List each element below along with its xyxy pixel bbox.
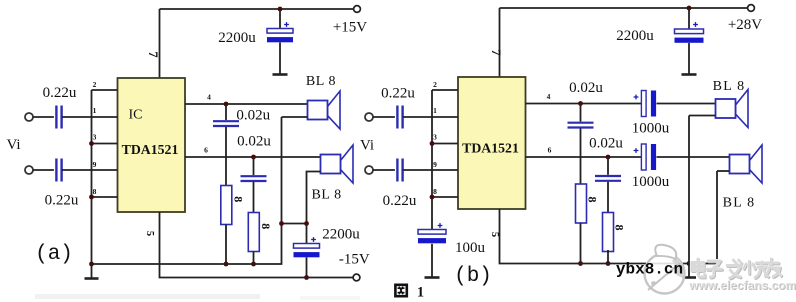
svg-text:2200u: 2200u (616, 28, 654, 44)
svg-text:1: 1 (417, 285, 424, 301)
BL 8 label top (a) (306, 74, 336, 89)
resistor R1 (a) (221, 186, 232, 225)
TDA1521 part label (b) (462, 141, 519, 156)
zobel 1 wire upper (b) (580, 104, 582, 122)
wire ground cross link (a) (282, 223, 307, 225)
zobel 1 wire middle (a) (225, 127, 227, 186)
op-amp IC U2 TDA1521 (b) (458, 77, 526, 209)
resistor R2 (a) (248, 213, 259, 252)
wire speaker2 return (a) (307, 172, 321, 224)
BL 8 label bottom (a) (311, 188, 341, 203)
svg-text:(b): (b) (454, 265, 492, 288)
svg-text:0.22u: 0.22u (43, 85, 77, 101)
zobel 2 wire middle (a) (253, 182, 255, 213)
node zobel 1 to rail (a) (224, 262, 229, 267)
node cross link left (a) (279, 221, 284, 226)
node pin 4 zobel tap (a) (224, 102, 229, 107)
C5 value label 0.22u (b) (381, 86, 415, 102)
svg-text:8: 8 (586, 197, 600, 203)
speaker BL8 bottom (b) (730, 145, 763, 183)
node bus to ground rail (a) (89, 262, 94, 267)
BL 8 label top (b) (713, 79, 746, 94)
svg-text:1: 1 (93, 106, 97, 115)
pin 9 label (a) (93, 160, 97, 169)
node zobel 1 to rail (b) (578, 261, 583, 266)
zobel 2 wire lower (a) (253, 252, 255, 265)
circuit (b) +28V top rail wire (500, 7, 752, 9)
pin 3 stub (b) (432, 143, 458, 145)
input terminal Vi bottom (b) (365, 166, 373, 174)
svg-text:+15V: +15V (333, 20, 367, 36)
svg-text:9: 9 (93, 160, 97, 169)
op-amp IC U1 TDA1521 (a) (118, 78, 186, 212)
svg-text:8: 8 (433, 187, 437, 196)
capacitor C2 0.22u (a) (56, 159, 61, 182)
node zobel 2 to rail (b) (606, 261, 611, 266)
wire speaker2 return (b) (717, 170, 730, 172)
watermark elecfans logo (645, 245, 685, 294)
watermark elecfans CJK text (691, 259, 782, 279)
svg-text:1000u: 1000u (632, 174, 670, 190)
node pin 8 on bus (b) (430, 195, 435, 200)
ground symbol main (a) (85, 264, 99, 279)
svg-text:3: 3 (93, 133, 97, 142)
node top rail junction (b) (687, 6, 692, 11)
svg-text:2: 2 (93, 80, 97, 89)
pin 8 label (b) (433, 187, 437, 196)
BL 8 label bottom (b) (723, 196, 756, 211)
+28V terminal (748, 5, 755, 12)
watermark ybx8.cn text (616, 261, 683, 279)
circuit label (b) (454, 265, 492, 288)
R3 value label (b) (586, 197, 600, 203)
node ground rail (b) (687, 261, 692, 266)
svg-text:TDA1521: TDA1521 (462, 141, 519, 156)
ground bus vertical (b) (431, 90, 433, 230)
C2 value label 0.22u (a) (45, 193, 79, 209)
svg-text:0.22u: 0.22u (381, 86, 415, 102)
pin 4 label (a) (207, 93, 211, 102)
pin 9 label (b) (433, 160, 437, 169)
R4 value label (b) (613, 225, 627, 231)
C4 value label 0.02u (a) (237, 134, 271, 150)
zobel 1 wire lower (b) (580, 223, 582, 264)
node 2200u on -15V rail (a) (304, 275, 309, 280)
-15V terminal (a) (353, 274, 360, 281)
C6 value label 0.22u (b) (383, 193, 417, 209)
capacitor 1000u out1 value label (632, 121, 670, 137)
pin 8 label (a) (93, 187, 97, 196)
pin 6 output wire (a) (185, 156, 321, 158)
C8 value label 0.02u (b) (589, 136, 623, 152)
resistor R4 (b) (603, 213, 614, 252)
ground bus vertical (a) (91, 90, 93, 264)
svg-text:7: 7 (489, 49, 503, 55)
svg-text:0.02u: 0.02u (589, 136, 623, 152)
zobel 2 wire lower (b) (607, 250, 609, 264)
speaker BL8 bottom (a) (321, 145, 354, 183)
capacitor 100u value label (455, 240, 486, 256)
capacitor 2200u (a) polarity + (284, 22, 289, 27)
wire C1 to pin 1 (a) (62, 116, 118, 118)
C3 value label 0.02u (a) (236, 108, 270, 124)
capacitor 100u (b) (418, 230, 446, 244)
svg-text:8: 8 (231, 196, 245, 202)
svg-text:8: 8 (93, 187, 97, 196)
pin 1 label (b) (433, 106, 437, 115)
pin 4 output wire (b) (526, 103, 642, 105)
C7 value label 0.02u (b) (569, 80, 603, 96)
ground below 100u (b) (425, 263, 440, 278)
input terminal Vi bottom (a) (25, 166, 33, 174)
TDA1521 part label (a) (122, 142, 179, 157)
pin 7 label circuit (a) (146, 51, 160, 57)
capacitor 0.02u C7 (b) (568, 123, 594, 128)
speaker BL8 top (b) (716, 90, 749, 128)
Vi label (a) (6, 137, 20, 153)
capacitor 2200u supply (b) (675, 29, 704, 43)
pin 6 output wire (b) (526, 156, 642, 158)
bottom caption smudge (35, 294, 360, 300)
svg-text:IC: IC (129, 108, 143, 123)
capacitor 100u polarity + (438, 223, 443, 228)
wire 1000u out2 to speaker (b) (657, 156, 730, 158)
pin 2 label (a) (93, 80, 97, 89)
input terminal Vi top (b) (365, 113, 373, 121)
node pin 3 on bus (b) (430, 141, 435, 146)
svg-text:0.22u: 0.22u (383, 193, 417, 209)
pin 5 wire (b) (500, 209, 718, 264)
ground symbol rail (b) (682, 264, 696, 278)
capacitor 2200u neg (a) value label (322, 226, 360, 242)
C1 value label 0.22u (a) (43, 85, 77, 101)
pin 8 stub (a) (92, 196, 118, 198)
svg-text:-15V: -15V (339, 251, 370, 267)
capacitor 2200u negative rail (a) (294, 244, 320, 258)
pin 2 label (b) (433, 80, 437, 89)
capacitor 0.02u C4 (a) (241, 176, 267, 181)
svg-text:BL 8: BL 8 (723, 196, 756, 211)
node zobel 2 to rail (a) (251, 262, 256, 267)
pin 7 label circuit (b) (489, 49, 503, 55)
wire input bottom to C2 (a) (33, 169, 54, 171)
svg-text:2200u: 2200u (218, 30, 256, 46)
watermark www.elecfans.com text (688, 278, 796, 293)
capacitor C5 0.22u (b) (397, 106, 402, 129)
svg-text:Vi: Vi (6, 137, 20, 153)
svg-text:2: 2 (433, 80, 437, 89)
wire C6 to pin 9 (b) (403, 169, 458, 171)
IC designator label (a) (129, 108, 143, 123)
wire 1000u out1 to speaker (b) (657, 103, 716, 105)
zobel 2 wire middle (b) (607, 182, 609, 213)
R1 value label (a) (231, 196, 245, 202)
svg-text:0.02u: 0.02u (569, 80, 603, 96)
pin 6 label (a) (204, 146, 208, 155)
ground rail A (a) (92, 117, 282, 264)
wire input top to C1 (a) (33, 116, 54, 118)
svg-text:2200u: 2200u (322, 226, 360, 242)
figure label 图 1 (395, 285, 424, 301)
pin 4 label (b) (547, 92, 551, 101)
-15V label (339, 251, 370, 267)
Vi label (b) (360, 138, 374, 154)
pin 8 stub (b) (432, 196, 458, 198)
svg-text:7: 7 (146, 51, 160, 57)
capacitor 2200u positive rail (a) wire (279, 9, 281, 29)
svg-text:6: 6 (548, 146, 552, 155)
ground below 2200u (b) (682, 43, 697, 75)
svg-text:5: 5 (489, 232, 500, 237)
wire input bottom to C6 (b) (373, 169, 395, 171)
wire speaker1 return (a) (282, 116, 308, 118)
pin 1 label (a) (93, 106, 97, 115)
pin 3 stub (a) (92, 143, 118, 145)
node: top rail junction (a) (278, 7, 283, 12)
node pin 6 zobel tap (a) (251, 155, 256, 160)
svg-text:Vi: Vi (360, 138, 374, 154)
circuit label (a) (35, 243, 73, 266)
capacitor 0.02u C8 (b) (595, 176, 621, 181)
wire speaker1 return vertical (b) (688, 116, 690, 264)
capacitor 2200u positive rail (a) (267, 29, 293, 43)
resistor R3 (b) (576, 184, 587, 223)
wire C2 to pin 9 (a) (62, 169, 118, 171)
svg-text:8: 8 (613, 225, 627, 231)
node pin 3 on bus (a) (89, 141, 94, 146)
pin 2 stub (b) (432, 89, 458, 91)
zobel 1 wire lower (a) (225, 225, 227, 265)
svg-text:4: 4 (207, 93, 211, 102)
capacitor 1000u output 1 (b) (641, 91, 656, 117)
svg-text:+28V: +28V (728, 17, 762, 33)
node pin 6 zobel tap (b) (606, 155, 611, 160)
svg-text:0.02u: 0.02u (236, 108, 270, 124)
+15V terminal circuit (a) (354, 6, 361, 13)
svg-text:5: 5 (144, 231, 155, 236)
pin 7 wire circuit (b) (499, 8, 501, 77)
svg-text:(a): (a) (35, 243, 73, 266)
capacitor 1000u out2 polarity + (634, 148, 639, 153)
+28V label (728, 17, 762, 33)
pin 5 label (b) (489, 232, 500, 237)
node pin 4 zobel tap (b) (578, 101, 583, 106)
+15V label (333, 20, 367, 36)
pin 4 output wire (a) (185, 103, 308, 105)
speaker BL8 top (a) (308, 91, 341, 129)
svg-text:ybx8.cn: ybx8.cn (616, 261, 683, 279)
svg-text:0.22u: 0.22u (45, 193, 79, 209)
capacitor C1 0.22u (a) (56, 106, 61, 129)
svg-text:TDA1521: TDA1521 (122, 142, 179, 157)
svg-text:1000u: 1000u (632, 121, 670, 137)
zobel 1 wire upper (a) (225, 104, 227, 120)
wire 2200u neg to -15V rail (a) (306, 257, 308, 277)
svg-text:4: 4 (547, 92, 551, 101)
capacitor C6 0.22u (b) (397, 159, 402, 182)
svg-text:1: 1 (433, 106, 437, 115)
pin 6 label (b) (548, 146, 552, 155)
input terminal Vi top (a) (25, 113, 33, 121)
svg-text:www.elecfans.com: www.elecfans.com (689, 279, 796, 293)
zobel 1 wire middle (b) (580, 129, 582, 185)
wire speaker1 return (b) (689, 115, 716, 117)
svg-text:100u: 100u (455, 240, 486, 256)
pin 5 label (a) (144, 231, 155, 236)
svg-text:9: 9 (433, 160, 437, 169)
zobel 2 wire upper (b) (607, 157, 609, 175)
wire C5 to pin 1 (b) (403, 116, 458, 118)
svg-text:8: 8 (259, 223, 273, 229)
svg-text:3: 3 (433, 133, 437, 142)
svg-text:BL 8: BL 8 (311, 188, 341, 203)
capacitor 1000u out1 polarity + (634, 95, 639, 100)
svg-text:6: 6 (204, 146, 208, 155)
wire input top to C5 (b) (373, 116, 395, 118)
svg-text:BL 8: BL 8 (713, 79, 746, 94)
pin 2 stub (a) (92, 89, 118, 91)
zobel 2 wire upper (a) (253, 157, 255, 175)
pin 5 wire (a) (160, 212, 354, 278)
pin 3 label (b) (433, 133, 437, 142)
capacitor 0.02u C3 (a) (213, 121, 239, 126)
capacitor 2200u negative rail (a) wire (306, 224, 308, 244)
pin 7 wire circuit (a) (159, 9, 161, 78)
node pin 8 on bus (a) (89, 195, 94, 200)
capacitor 2200u (b) wire (688, 8, 690, 29)
capacitor 1000u output 2 (b) (641, 144, 656, 170)
wire 100u to ground (b) (431, 244, 433, 263)
svg-text:0.02u: 0.02u (237, 134, 271, 150)
capacitor 1000u out2 value label (632, 174, 670, 190)
capacitor 2200u neg (a) polarity + (311, 237, 316, 242)
svg-text:BL 8: BL 8 (306, 74, 336, 89)
wire speaker2 return vertical (b) (716, 171, 718, 264)
capacitor 2200u (a) value label (218, 30, 256, 46)
capacitor 2200u (b) polarity + (693, 22, 698, 27)
circuit (a) +15V top rail wire (160, 8, 358, 10)
pin 3 label (a) (93, 133, 97, 142)
ground below 2200u (a) (273, 43, 288, 75)
capacitor 2200u (b) value label (616, 28, 654, 44)
R2 value label (a) (259, 223, 273, 229)
node cross link right (a) (304, 221, 309, 226)
